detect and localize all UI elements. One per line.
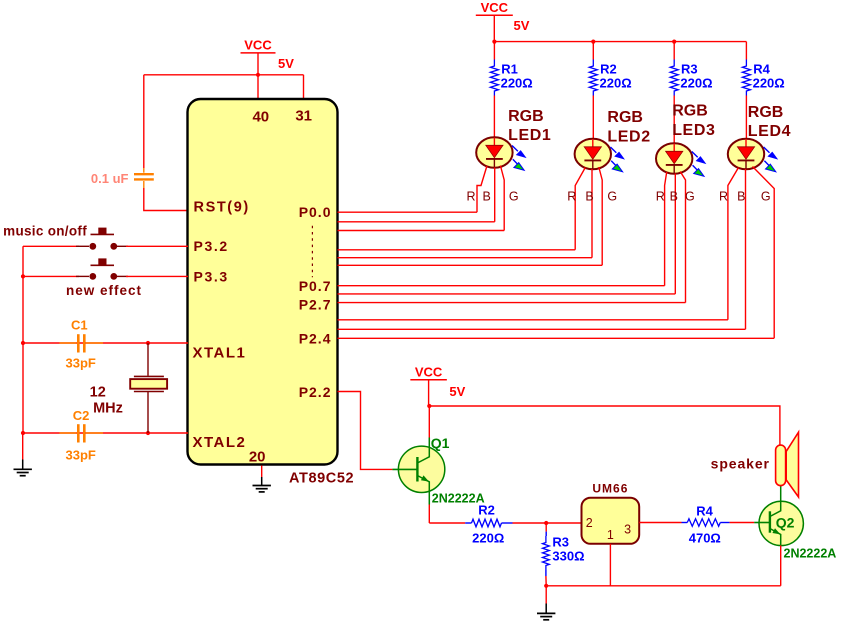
LED4 emission arrow green xyxy=(764,161,769,166)
svg-text:220Ω: 220Ω xyxy=(753,76,785,91)
svg-text:XTAL1: XTAL1 xyxy=(193,345,247,362)
svg-text:R2: R2 xyxy=(600,62,617,77)
dashed line P0.0..P0.7 xyxy=(311,226,313,278)
svg-text:RST(9): RST(9) xyxy=(194,200,250,216)
svg-text:5V: 5V xyxy=(278,56,294,71)
resistor R4 220ohm xyxy=(745,42,747,60)
node junction XTAL1/crystal xyxy=(146,341,150,345)
wire LED1 G lead xyxy=(500,166,504,231)
wire UM66 pin3 to R4 xyxy=(639,522,681,524)
wire left branch down to C5 xyxy=(143,75,145,168)
svg-text:LED2: LED2 xyxy=(607,129,650,146)
svg-text:G: G xyxy=(607,189,617,203)
LED3 emission arrow blue xyxy=(692,152,698,158)
svg-text:G: G xyxy=(761,189,771,203)
wire R4 to Q2 base xyxy=(730,522,755,524)
node junction VCC/rail/Q1 xyxy=(427,404,431,408)
svg-text:B: B xyxy=(737,189,745,203)
wire LED1 R lead xyxy=(477,166,487,212)
svg-text:G: G xyxy=(685,189,695,203)
svg-text:P3.3: P3.3 xyxy=(194,269,229,285)
wire R2 to UM66 pin2 xyxy=(513,522,582,524)
svg-text:B: B xyxy=(585,189,593,203)
svg-text:AT89C52: AT89C52 xyxy=(289,471,354,487)
svg-text:P2.2: P2.2 xyxy=(299,384,332,400)
wire LED1 B lead xyxy=(494,168,496,222)
svg-text:R4: R4 xyxy=(696,504,713,519)
svg-text:2N2222A: 2N2222A xyxy=(432,492,485,506)
svg-text:12: 12 xyxy=(90,385,106,401)
node junction R2/R3 xyxy=(544,521,548,525)
wire P0 bus to LED1 B xyxy=(338,221,495,223)
wire P0 bus to LED3 B xyxy=(338,293,676,295)
LED D4 RGB xyxy=(728,139,764,170)
svg-text:470Ω: 470Ω xyxy=(689,531,721,546)
wire R1 to LED1 xyxy=(493,96,495,139)
LED D1 RGB xyxy=(476,137,512,168)
pushbutton S1 music on/off xyxy=(23,245,79,247)
svg-text:P3.2: P3.2 xyxy=(194,238,229,254)
capacitor C2 xyxy=(59,432,76,434)
svg-text:R: R xyxy=(466,189,475,203)
wire P0 bus to LED1 G xyxy=(338,230,505,232)
node junction rail/R1 xyxy=(492,40,496,44)
node junction rail/R3 bottom xyxy=(544,584,548,588)
wire P0 bus to LED2 B xyxy=(338,257,593,259)
svg-text:LED4: LED4 xyxy=(748,123,791,140)
svg-text:220Ω: 220Ω xyxy=(472,531,504,546)
wire LED3 G lead xyxy=(680,172,685,303)
wire LED2 R lead xyxy=(575,168,585,250)
resistor R4 470ohm xyxy=(682,522,688,524)
svg-text:C2: C2 xyxy=(73,408,90,423)
wire R4 to LED4 xyxy=(745,96,747,141)
svg-text:C1: C1 xyxy=(71,318,88,333)
svg-text:33pF: 33pF xyxy=(66,356,96,371)
wire LED3 B lead xyxy=(674,174,676,294)
svg-text:220Ω: 220Ω xyxy=(501,76,533,91)
ground bottom rail xyxy=(545,586,547,604)
svg-text:VCC: VCC xyxy=(415,365,443,380)
svg-text:R: R xyxy=(719,189,728,203)
transistor Q2 2N2222A xyxy=(759,501,803,545)
svg-text:RGB: RGB xyxy=(508,108,544,125)
pushbutton S2 new effect xyxy=(23,275,79,277)
node junction at pin40 stub xyxy=(256,73,260,77)
wire XTAL2 net xyxy=(23,432,188,434)
svg-text:R3: R3 xyxy=(681,62,698,77)
node junction left rail / P3.3 xyxy=(21,274,25,278)
wire P0 bus to LED4 G xyxy=(338,337,775,339)
wire UM66 pin1 to ground rail xyxy=(609,544,611,586)
wire 5V rail to speaker xyxy=(429,406,780,445)
wire LED supply rail xyxy=(494,41,746,43)
node junction rail/R2 xyxy=(591,40,595,44)
resistor R3 330ohm xyxy=(545,523,547,532)
svg-text:RGB: RGB xyxy=(748,104,784,121)
svg-text:VCC: VCC xyxy=(244,38,272,53)
svg-text:LED1: LED1 xyxy=(508,127,551,144)
svg-text:Q1: Q1 xyxy=(431,435,450,451)
wire R2 to LED2 xyxy=(592,96,594,141)
svg-text:0.1 uF: 0.1 uF xyxy=(91,171,129,186)
resistor R2 220ohm xyxy=(592,42,594,60)
svg-text:2: 2 xyxy=(586,516,593,530)
wire P0 bus to LED3 R xyxy=(338,285,665,287)
svg-text:P0.7: P0.7 xyxy=(299,278,332,294)
wire Q1 emitter to R2 xyxy=(429,522,465,524)
svg-text:RGB: RGB xyxy=(672,103,708,120)
wire Q2 collector to speaker xyxy=(780,486,782,502)
wire LED2 G lead xyxy=(599,167,602,265)
LED2 emission arrow blue xyxy=(610,147,616,153)
resistor R1 220ohm xyxy=(493,42,495,60)
svg-text:33pF: 33pF xyxy=(66,448,96,463)
LED2 emission arrow green xyxy=(611,161,616,166)
wire P0 bus to LED4 B xyxy=(338,328,746,330)
svg-text:1: 1 xyxy=(607,528,614,542)
svg-text:B: B xyxy=(483,189,491,203)
LED D2 RGB xyxy=(575,139,611,170)
wire P0 bus to LED4 R xyxy=(338,319,728,321)
LED3 emission arrow green xyxy=(693,165,698,170)
svg-text:UM66: UM66 xyxy=(592,482,628,496)
svg-text:R3: R3 xyxy=(552,535,569,550)
svg-text:R1: R1 xyxy=(501,62,518,77)
resistor R3 220ohm xyxy=(673,42,675,60)
svg-text:220Ω: 220Ω xyxy=(600,76,632,91)
wire VCC stub to rail xyxy=(257,53,259,100)
svg-text:R: R xyxy=(656,189,665,203)
capacitor C5 0.1uF xyxy=(143,168,145,173)
capacitor C1 xyxy=(59,342,76,344)
svg-text:R: R xyxy=(567,189,576,203)
wire LED3 R lead xyxy=(665,172,667,286)
svg-text:P2.7: P2.7 xyxy=(299,297,332,313)
svg-text:G: G xyxy=(509,189,519,203)
wire R3 to LED3 xyxy=(673,96,675,145)
node junction XTAL2/crystal xyxy=(146,431,150,435)
wire LED4 R lead xyxy=(728,168,739,320)
svg-text:LED3: LED3 xyxy=(672,122,715,139)
wire pin 20 to ground xyxy=(261,466,263,478)
wire LED4 B lead xyxy=(745,169,747,329)
transistor Q1 2N2222A xyxy=(398,446,444,492)
svg-text:40: 40 xyxy=(252,109,269,126)
wire stub to pin 31 xyxy=(303,75,305,100)
wire XTAL1 net xyxy=(23,342,188,344)
wire VCC stub middle xyxy=(428,380,430,406)
node junction left rail / XTAL1 net xyxy=(21,341,25,345)
LED4 emission arrow blue xyxy=(764,147,770,153)
wire VCC stub top right xyxy=(493,15,495,41)
wire LED2 B lead xyxy=(591,169,593,258)
wire top-left VCC rail xyxy=(144,74,304,76)
svg-text:RGB: RGB xyxy=(607,109,643,126)
svg-text:music on/off: music on/off xyxy=(3,224,87,239)
svg-text:220Ω: 220Ω xyxy=(680,76,712,91)
wire P0 bus to LED2 R xyxy=(338,249,576,251)
wire P2.2 to Q1 base xyxy=(338,392,393,470)
resistor R2 220ohm xyxy=(465,522,471,524)
svg-text:330Ω: 330Ω xyxy=(552,549,584,564)
speaker LS1 xyxy=(776,445,786,486)
ground left rail xyxy=(22,433,24,460)
LED1 emission arrow green xyxy=(513,159,518,164)
wire bottom ground rail xyxy=(546,585,781,587)
svg-text:speaker: speaker xyxy=(711,456,770,472)
crystal X1 12MHz xyxy=(147,343,149,376)
op-amp U2 UM66 melody chip body xyxy=(582,498,640,544)
op-amp U1 AT89C52 microcontroller body xyxy=(188,99,338,465)
svg-text:R4: R4 xyxy=(753,62,770,77)
svg-text:B: B xyxy=(670,189,678,203)
node junction left rail / XTAL2 net xyxy=(21,431,25,435)
node junction rail/R3b xyxy=(672,40,676,44)
LED D3 RGB xyxy=(656,143,692,174)
wire Q2 emitter down xyxy=(780,545,782,585)
svg-text:3: 3 xyxy=(624,523,631,537)
svg-text:new effect: new effect xyxy=(66,283,142,298)
svg-text:5V: 5V xyxy=(514,18,530,33)
svg-text:Q2: Q2 xyxy=(776,515,795,531)
svg-text:P0.0: P0.0 xyxy=(299,204,332,220)
wire P0 bus to LED3 G xyxy=(338,302,686,304)
svg-text:VCC: VCC xyxy=(481,0,509,15)
wire C5 to RST pin xyxy=(144,188,188,211)
svg-text:R2: R2 xyxy=(478,503,495,518)
svg-text:31: 31 xyxy=(295,108,312,125)
svg-text:2N2222A: 2N2222A xyxy=(784,547,837,561)
wire P0 bus to LED1 R xyxy=(338,211,478,213)
svg-text:XTAL2: XTAL2 xyxy=(193,434,247,451)
wire P0 bus to LED2 G xyxy=(338,264,603,266)
wire left rail xyxy=(22,246,24,433)
svg-text:20: 20 xyxy=(249,449,266,466)
wire LED4 G lead xyxy=(753,167,775,339)
LED1 emission arrow blue xyxy=(512,146,518,152)
svg-text:5V: 5V xyxy=(449,384,465,399)
svg-text:MHz: MHz xyxy=(93,401,123,417)
wire Q1 emitter down xyxy=(428,505,430,524)
svg-text:P2.4: P2.4 xyxy=(299,331,332,347)
wire Q1 collector to VCC xyxy=(428,406,430,438)
